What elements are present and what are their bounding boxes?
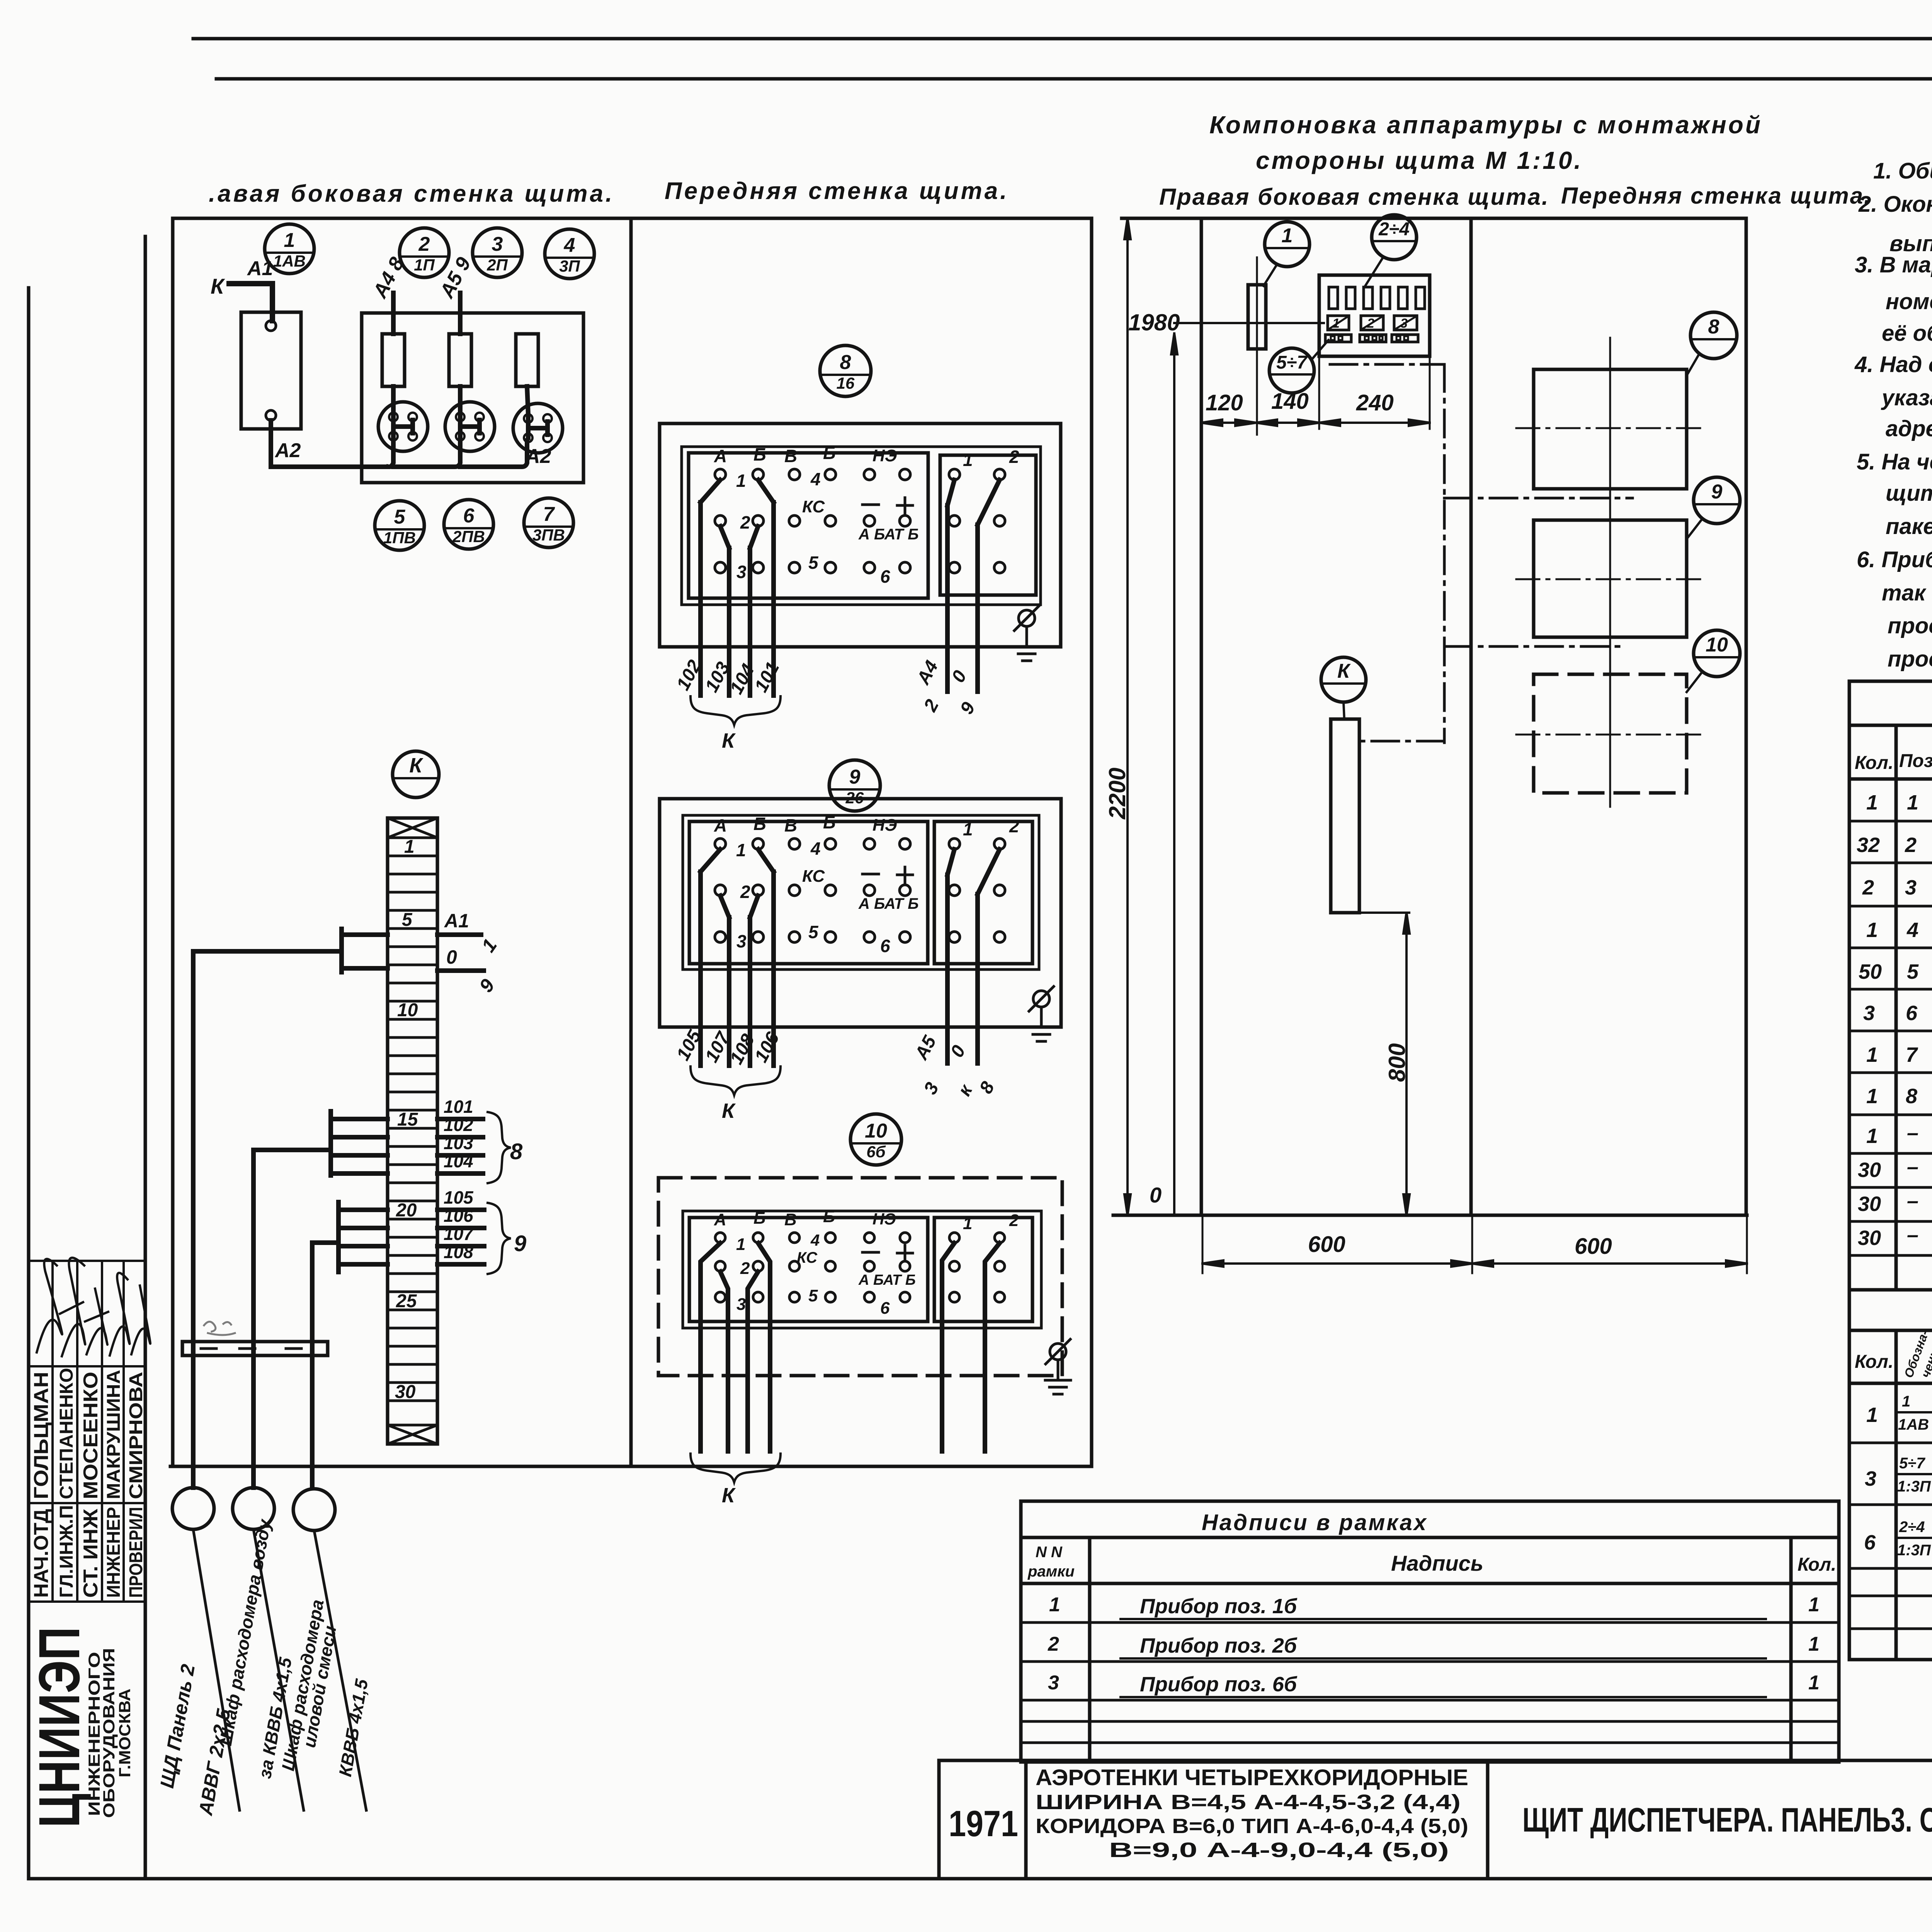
brace К panel2	[690, 1066, 781, 1095]
device 1 rect	[1248, 285, 1266, 349]
svg-text:1: 1	[1866, 1124, 1878, 1148]
svg-text:Надписи в рамках: Надписи в рамках	[1202, 1510, 1428, 1535]
device 1АВ breaker rect	[241, 312, 301, 429]
wire K to 1АВ	[229, 284, 272, 321]
fuse links row	[1329, 287, 1425, 309]
svg-text:–: –	[1907, 1155, 1918, 1179]
svg-text:9: 9	[849, 766, 861, 788]
perechen column lines	[1896, 1330, 1932, 1660]
cable circle 1	[172, 1488, 214, 1529]
nadpisi table frame	[1021, 1501, 1839, 1762]
svg-text:102: 102	[444, 1115, 473, 1135]
svg-text:1:3П: 1:3П	[1897, 1478, 1931, 1495]
svg-text:3: 3	[1863, 1002, 1875, 1025]
panel 1 outer rect	[660, 423, 1061, 647]
svg-text:ЦНИИЭП: ЦНИИЭП	[27, 1627, 92, 1828]
svg-text:108: 108	[444, 1242, 473, 1262]
right wall left edge	[1200, 218, 1203, 1215]
left comb cells21-24	[338, 1202, 388, 1272]
svg-text:А2: А2	[274, 439, 301, 462]
svg-text:104: 104	[444, 1151, 473, 1171]
bubble k1	[1265, 222, 1310, 267]
taps 105-108 right	[437, 1210, 484, 1264]
svg-text:4. Над отрезками линий у к: 4. Над отрезками линий у контактов всех …	[1854, 352, 1932, 377]
left feed wire 3	[312, 1243, 338, 1488]
dim 2200 line	[1124, 218, 1131, 1215]
svg-text:9: 9	[1711, 481, 1723, 503]
svg-text:Кол.: Кол.	[1855, 753, 1893, 773]
spec column lines	[1896, 725, 1932, 1290]
svg-text:2ПВ: 2ПВ	[452, 527, 485, 546]
brace 9	[488, 1203, 511, 1274]
stamp signature grid lines	[29, 1260, 145, 1262]
svg-text:ГЛ.ИНЖ.П: ГЛ.ИНЖ.П	[56, 1505, 77, 1598]
svg-text:6: 6	[1906, 1002, 1918, 1025]
svg-text:101: 101	[444, 1097, 473, 1117]
left feed wire 1	[193, 951, 342, 1488]
svg-text:Кол.: Кол.	[1798, 1554, 1836, 1575]
svg-text:А2: А2	[525, 445, 551, 468]
pencil scribble	[204, 1321, 235, 1335]
nadpisi columns	[1090, 1537, 1791, 1762]
svg-text:5: 5	[394, 506, 406, 528]
svg-text:5: 5	[1907, 960, 1919, 983]
cable lead 3	[314, 1531, 366, 1810]
bubble 4/3П	[545, 229, 594, 279]
svg-text:140: 140	[1271, 389, 1309, 414]
svg-text:Прибор поз. 2б: Прибор поз. 2б	[1140, 1634, 1298, 1657]
panel 2 enclosing rect	[683, 815, 1039, 969]
svg-text:30: 30	[1858, 1192, 1881, 1216]
leader k2-4	[1364, 257, 1383, 288]
svg-text:её обозначение по электри: её обозначение по электрической схеме ил…	[1882, 321, 1932, 346]
fuse 2П body	[449, 334, 471, 386]
svg-text:Передняя стенка щита.: Передняя стенка щита.	[665, 178, 1009, 204]
panel 1 right block	[940, 455, 1036, 595]
panel 2 terminals and labels	[701, 812, 1019, 956]
svg-text:1: 1	[1808, 1633, 1820, 1655]
bubble 3/2П	[473, 228, 522, 277]
svg-text:К: К	[409, 754, 423, 777]
panel 3 labels	[714, 1207, 1019, 1318]
brace К panel3	[690, 1454, 781, 1482]
svg-text:Г.МОСКВА: Г.МОСКВА	[116, 1689, 134, 1777]
terminal strip К bubble	[393, 751, 439, 798]
svg-text:пакетов (жгутов) проводов: пакетов (жгутов) проводов цепей питания.	[1886, 514, 1932, 539]
svg-text:СТЕПАНЕНКО: СТЕПАНЕНКО	[56, 1368, 77, 1499]
svg-text:1: 1	[1808, 1672, 1820, 1694]
panel 1 main block	[689, 453, 928, 598]
panel 3 left fan wires	[701, 1243, 770, 1451]
sheet outer border top	[193, 37, 1932, 41]
svg-text:адреса соединений.: адреса соединений.	[1886, 416, 1932, 441]
svg-text:2: 2	[1862, 876, 1874, 899]
svg-text:30: 30	[1858, 1226, 1881, 1250]
svg-text:Б: Б	[753, 1209, 765, 1228]
svg-text:проекта. ( Монтаж прибора пр: проекта. ( Монтаж прибора произвести при…	[1888, 613, 1932, 638]
svg-text:3: 3	[1865, 1467, 1876, 1490]
wire А5-9 into fuse 2П	[458, 293, 463, 334]
svg-text:1: 1	[1049, 1594, 1060, 1616]
panel outline right edge	[1745, 218, 1748, 1215]
svg-text:30: 30	[1858, 1158, 1881, 1182]
svg-text:4: 4	[564, 234, 575, 257]
svg-text:–: –	[1907, 1189, 1918, 1213]
svg-text:2: 2	[1367, 316, 1374, 331]
svg-text:МОСЕЕНКО: МОСЕЕНКО	[80, 1372, 102, 1499]
left comb cells16-19	[331, 1111, 388, 1175]
svg-text:1П: 1П	[414, 256, 435, 274]
bottom dim line	[1202, 1260, 1747, 1267]
svg-text:ИНЖЕНЕР: ИНЖЕНЕР	[104, 1507, 124, 1598]
title block top	[939, 1759, 1932, 1762]
terminal strip body	[388, 818, 437, 1444]
panel 1 enclosing rect	[682, 447, 1041, 605]
big left box bottom line	[170, 1465, 1092, 1468]
ground panel 2	[1029, 986, 1054, 1041]
panel 1 terminals and labels	[701, 443, 1019, 587]
svg-text:2: 2	[1009, 1211, 1019, 1230]
svg-text:7: 7	[1906, 1043, 1918, 1066]
svg-text:1: 1	[1902, 1393, 1910, 1410]
fuse 3П body	[516, 334, 538, 386]
svg-text:.авая боковая стенка щита.: .авая боковая стенка щита.	[209, 180, 614, 207]
brace К panel1	[690, 696, 781, 725]
spec header bottom	[1849, 777, 1932, 781]
svg-text:1: 1	[1866, 918, 1878, 942]
spec table frame	[1849, 681, 1932, 1290]
panel 3 dashed rect	[658, 1178, 1062, 1376]
crosshair vertical	[1609, 338, 1611, 807]
svg-text:КС: КС	[797, 1249, 818, 1266]
svg-text:106: 106	[444, 1206, 473, 1226]
svg-text:А1: А1	[247, 257, 273, 280]
svg-text:6. Прибор 10 (поз. 6б) показ: 6. Прибор 10 (поз. 6б) показан пунктирно…	[1857, 547, 1932, 572]
perechen header bottom	[1849, 1382, 1932, 1385]
svg-text:ОБОРУДОВАНИЯ: ОБОРУДОВАНИЯ	[100, 1648, 118, 1818]
svg-text:15: 15	[397, 1109, 418, 1130]
leader k1	[1264, 264, 1277, 286]
panel 3 right block	[934, 1218, 1032, 1321]
crosshair horizontals dash-dot	[1516, 428, 1704, 735]
svg-text:К: К	[722, 1484, 736, 1507]
rect device 9	[1534, 520, 1687, 637]
clamp tick marks	[201, 1347, 301, 1350]
bottom dim extensions	[1202, 1217, 1747, 1273]
svg-text:Поз.: Поз.	[1899, 751, 1932, 771]
svg-text:Прибор поз. 1б: Прибор поз. 1б	[1140, 1595, 1298, 1618]
dim 800 line	[1403, 913, 1410, 1215]
svg-text:3. В маркировке аппаратуры: 3. В маркировке аппаратуры в числителе у…	[1855, 252, 1932, 277]
svg-text:1: 1	[736, 1235, 745, 1254]
svg-text:1: 1	[1907, 791, 1918, 814]
numbered windows row	[1328, 316, 1417, 330]
svg-text:5: 5	[402, 910, 413, 930]
bubble 1/1АВ	[265, 224, 314, 274]
panel 3 enclosing rect	[683, 1211, 1041, 1328]
svg-text:КОРИДОРА В=6,0 ТИП А-4-6,0-4,4: КОРИДОРА В=6,0 ТИП А-4-6,0-4,4 (5,0)	[1036, 1815, 1468, 1838]
panel 1 right wires	[947, 505, 978, 692]
socket 1ПВ	[378, 402, 428, 451]
svg-text:2÷4: 2÷4	[1899, 1519, 1925, 1536]
svg-text:Прибор поз. 6б: Прибор поз. 6б	[1140, 1673, 1298, 1696]
svg-text:1: 1	[1808, 1594, 1820, 1616]
svg-text:1АВ: 1АВ	[273, 252, 306, 270]
svg-text:1: 1	[1866, 1403, 1878, 1427]
svg-text:стороны щита М 1:10.: стороны щита М 1:10.	[1256, 146, 1583, 174]
svg-text:ПРОВЕРИЛ: ПРОВЕРИЛ	[126, 1507, 146, 1598]
svg-text:Передняя стенка щита.: Передняя стенка щита.	[1561, 183, 1872, 209]
bubble 10/6б	[850, 1114, 901, 1165]
svg-text:800: 800	[1384, 1043, 1410, 1082]
svg-text:1: 1	[963, 1214, 972, 1233]
svg-text:ГОЛЬЦМАН: ГОЛЬЦМАН	[30, 1372, 53, 1499]
svg-text:25: 25	[396, 1291, 417, 1311]
svg-text:16: 16	[837, 374, 855, 392]
svg-text:600: 600	[1308, 1232, 1345, 1257]
bubble 5/1ПВ	[375, 501, 424, 550]
svg-text:А: А	[714, 1210, 726, 1229]
svg-text:2: 2	[740, 1259, 750, 1278]
big left box frame	[173, 218, 1092, 1466]
svg-text:К: К	[211, 274, 225, 298]
wall divider line	[1469, 218, 1473, 1215]
svg-text:3: 3	[1905, 876, 1917, 899]
dim line 120-140-240	[1201, 420, 1430, 426]
device block 2-4 rect	[1319, 275, 1430, 356]
packet route from block	[1330, 364, 1633, 743]
svg-text:4: 4	[1906, 918, 1918, 942]
wire А4-8 into fuse 1П	[391, 293, 396, 334]
panel 2 right wires	[947, 875, 978, 1063]
cable lead 1	[193, 1529, 240, 1810]
svg-text:ШИРИНА В=4,5 А-4-4,5-3,2: ШИРИНА В=4,5 А-4-4,5-3,2 (4,4)	[1036, 1791, 1461, 1814]
device K bubble	[1321, 657, 1366, 702]
panel 3 main block	[689, 1218, 928, 1321]
svg-text:АЭРОТЕНКИ ЧЕТЫРЕХКОРИДОРНЫЕ: АЭРОТЕНКИ ЧЕТЫРЕХКОРИДОРНЫЕ	[1036, 1765, 1468, 1790]
svg-text:1980: 1980	[1128, 310, 1180, 335]
perechen row lines	[1849, 1443, 1932, 1629]
device K rect	[1331, 719, 1359, 913]
svg-text:Надпись: Надпись	[1391, 1551, 1483, 1575]
svg-text:3: 3	[1400, 316, 1408, 331]
tap А1 right	[437, 932, 481, 937]
dim 800 extension	[1359, 912, 1409, 914]
leader 9	[1687, 519, 1702, 539]
svg-text:СМИРНОВА: СМИРНОВА	[126, 1372, 146, 1499]
panel 2 outer rect	[660, 799, 1061, 1027]
base line y0	[1113, 1214, 1747, 1217]
svg-text:проекта.): проекта.)	[1888, 646, 1932, 672]
nadpisi rows	[1021, 1622, 1839, 1743]
terminal strip top X cell	[388, 818, 437, 838]
svg-text:2. Оконцевание и подсоединен: 2. Оконцевание и подсоединение алюминиев…	[1858, 192, 1932, 217]
svg-text:8: 8	[510, 1139, 523, 1164]
perechen table frame	[1849, 1290, 1932, 1660]
sheet inner border left	[27, 288, 31, 1879]
svg-text:1: 1	[404, 837, 415, 857]
bubble 9	[1694, 477, 1740, 524]
svg-text:1. Общий вид щита см. ли: 1. Общий вид щита см. лист АК-7 .	[1873, 158, 1932, 184]
svg-text:номер аппаратуры по схеме: номер аппаратуры по схеме соединений , в…	[1886, 289, 1932, 314]
svg-text:5. На чертеже компоновки а: 5. На чертеже компоновки аппаратуры с мо…	[1857, 449, 1932, 474]
svg-text:МАКРУШИНА: МАКРУШИНА	[104, 1370, 124, 1499]
cable circle 3	[293, 1489, 335, 1531]
rect device 10 dashed	[1534, 674, 1687, 793]
svg-text:3П: 3П	[559, 257, 580, 275]
svg-text:ЩИТ ДИСПЕТЧЕРА. ПАНЕЛЬ3. СХЕМА: ЩИТ ДИСПЕТЧЕРА. ПАНЕЛЬ3. СХЕМА СОЕДИНЕНИ…	[1522, 1801, 1932, 1839]
left feed wire 2	[253, 1150, 331, 1488]
spec rows text	[1857, 791, 1932, 1250]
svg-text:–: –	[1907, 1223, 1918, 1247]
device 1 centerline	[1256, 257, 1258, 435]
bubble 9/26	[829, 760, 880, 811]
svg-text:Компоновка аппаратуры с мон: Компоновка аппаратуры с монтажной	[1209, 111, 1762, 139]
svg-text:105: 105	[444, 1187, 474, 1207]
svg-text:5: 5	[808, 1286, 818, 1305]
tap 0 right	[437, 968, 484, 973]
А2 bus across sockets	[388, 440, 527, 467]
panel 1 left fan wires	[701, 502, 774, 696]
svg-text:НАЧ.ОТД: НАЧ.ОТД	[30, 1509, 53, 1598]
svg-text:щита штрих-пунктирной лини: щита штрих-пунктирной линией показано на…	[1886, 481, 1932, 506]
stamp signatures squiggles	[37, 1259, 62, 1352]
perechen rows	[1864, 1393, 1932, 1560]
svg-text:240: 240	[1356, 390, 1394, 415]
socket 3ПВ	[513, 403, 563, 453]
svg-text:А1: А1	[444, 910, 469, 932]
svg-text:1971: 1971	[949, 1803, 1018, 1844]
panel 2 left fan wires	[701, 872, 774, 1066]
svg-text:К: К	[722, 1099, 736, 1122]
cable lead 2	[253, 1529, 304, 1810]
svg-text:7: 7	[543, 503, 555, 526]
wire 1АВ to А2 bus	[271, 420, 388, 467]
svg-text:4: 4	[810, 1231, 820, 1249]
svg-text:50: 50	[1859, 960, 1882, 983]
svg-text:2200: 2200	[1104, 768, 1130, 820]
bubble 8	[1690, 312, 1737, 359]
socket 2ПВ	[445, 402, 495, 451]
extension lines for dims	[1319, 356, 1430, 429]
leader 8	[1687, 354, 1699, 376]
svg-text:120: 120	[1206, 390, 1243, 415]
svg-text:103: 103	[444, 1133, 473, 1153]
device K stub	[1344, 702, 1344, 719]
svg-text:1: 1	[1866, 791, 1878, 814]
svg-text:2÷4: 2÷4	[1378, 219, 1410, 240]
sheet inner border bottom	[29, 1877, 1932, 1881]
svg-text:1АВ: 1АВ	[1898, 1416, 1929, 1433]
svg-text:10: 10	[1706, 634, 1728, 656]
bubble k5-7	[1269, 348, 1314, 393]
svg-text:К: К	[722, 729, 736, 752]
spec row lines	[1849, 821, 1932, 1255]
svg-text:600: 600	[1575, 1234, 1612, 1259]
svg-text:2: 2	[1048, 1633, 1059, 1655]
svg-text:К: К	[1337, 660, 1351, 682]
svg-text:10: 10	[397, 1000, 418, 1020]
svg-text:3: 3	[736, 1295, 746, 1314]
title block verticals	[939, 1760, 1932, 1879]
taps 101-104 right	[437, 1119, 483, 1173]
bubble 2/1П	[400, 228, 449, 277]
fuse to socket wires	[391, 386, 396, 413]
svg-text:6: 6	[1864, 1531, 1876, 1554]
fuse 1П body	[382, 334, 405, 386]
bubble 6/2ПВ	[444, 500, 493, 549]
bubble k2-4	[1372, 215, 1417, 260]
svg-text:так как его установка реш: так как его установка решается при привя…	[1882, 580, 1932, 605]
stamp column right edge	[144, 236, 147, 1879]
svg-text:1ПВ: 1ПВ	[383, 529, 416, 547]
svg-text:2П: 2П	[486, 256, 508, 274]
svg-text:107: 107	[444, 1224, 474, 1244]
device 1АВ terminals	[266, 321, 276, 331]
ground panel 1	[1014, 606, 1039, 661]
svg-text:0: 0	[446, 946, 457, 968]
svg-text:8: 8	[1906, 1085, 1917, 1108]
switch row	[1325, 335, 1418, 342]
svg-text:3ПВ: 3ПВ	[532, 526, 565, 544]
dim 1980 leader	[1171, 323, 1324, 1215]
svg-text:3: 3	[1048, 1672, 1059, 1694]
svg-text:1:3П: 1:3П	[1897, 1542, 1931, 1559]
svg-text:9: 9	[514, 1231, 526, 1256]
spec title row line	[1849, 724, 1932, 727]
svg-text:1: 1	[1866, 1043, 1878, 1066]
leader k5-7	[1312, 340, 1328, 359]
svg-text:В=9,0 А-4-9,0-4,4 (5,0): В=9,0 А-4-9,0-4,4 (5,0)	[1109, 1838, 1449, 1862]
svg-text:3: 3	[492, 233, 503, 255]
svg-text:1: 1	[1282, 224, 1293, 247]
svg-text:10: 10	[865, 1120, 887, 1142]
svg-text:8: 8	[1708, 316, 1719, 338]
ground panel 3	[1045, 1339, 1071, 1394]
bubble 10	[1694, 630, 1740, 677]
svg-text:НЭ: НЭ	[872, 1210, 896, 1228]
svg-text:0: 0	[1150, 1183, 1162, 1207]
cable circle 2	[233, 1488, 274, 1529]
svg-text:указана маркировка цепей , н: указана маркировка цепей , на торцах лин…	[1881, 385, 1932, 410]
svg-text:N N: N N	[1036, 1544, 1063, 1561]
svg-text:Правая боковая стенка щита.: Правая боковая стенка щита.	[1159, 184, 1549, 210]
brace 8	[488, 1112, 511, 1183]
svg-text:1: 1	[1866, 1085, 1878, 1108]
wall divider	[629, 218, 633, 1466]
panel 3 right wires	[942, 1243, 1000, 1451]
svg-text:6: 6	[463, 505, 475, 527]
svg-text:20: 20	[396, 1200, 417, 1221]
svg-text:6б: 6б	[866, 1143, 886, 1161]
bubble 8/16	[820, 345, 871, 396]
svg-text:32: 32	[1857, 833, 1880, 857]
svg-text:1: 1	[284, 229, 295, 252]
strip cell lines	[388, 856, 437, 1407]
panel 2 main block	[689, 821, 928, 964]
svg-text:Б: Б	[823, 1207, 835, 1226]
panel 2 right block	[934, 821, 1032, 964]
leader 10	[1687, 672, 1702, 692]
nadpisi title line	[1021, 1536, 1839, 1539]
left comb cell5	[342, 929, 388, 972]
svg-text:1: 1	[1332, 316, 1340, 331]
nadpisi header line	[1021, 1582, 1839, 1585]
cable clamp bar	[182, 1342, 328, 1355]
svg-text:8: 8	[840, 351, 851, 374]
svg-text:6: 6	[880, 1299, 890, 1318]
terminal strip bottom X cell	[388, 1425, 437, 1444]
